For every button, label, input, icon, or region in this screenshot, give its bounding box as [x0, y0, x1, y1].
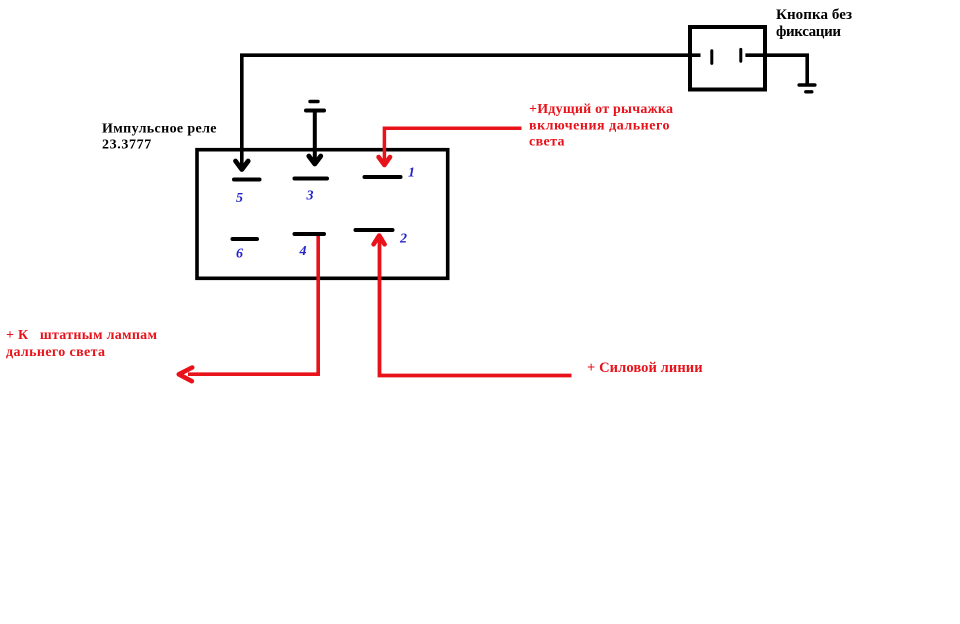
svg-text:Кнопка без: Кнопка без — [776, 7, 852, 23]
svg-text:+ К штатным лампам: + К штатным лампам — [6, 328, 157, 343]
pin 1 terminal — [365, 175, 401, 179]
wire: button right side to ground — [745, 55, 807, 83]
pin 5 terminal — [234, 178, 260, 182]
battery minus symbol: wide bar — [306, 109, 324, 113]
button contact right — [739, 49, 742, 61]
svg-text:2: 2 — [399, 232, 407, 247]
ground bar short — [806, 90, 812, 93]
pin 4 terminal — [295, 232, 325, 236]
arrowhead red pointing left — [179, 368, 192, 382]
label red "+ К штатным лампам дальнего света" — [6, 328, 157, 360]
pin 6 terminal — [233, 237, 258, 241]
svg-text:Импульсное реле: Импульсное реле — [102, 122, 217, 137]
svg-text:включения дальнего: включения дальнего — [529, 118, 670, 133]
ground bar wide — [799, 83, 815, 87]
arrowhead red into pin 1 — [379, 157, 390, 165]
label relay "Импульсное реле 23.3777" — [102, 122, 217, 153]
svg-text:23.3777: 23.3777 — [102, 137, 151, 152]
label red "+Идущий от рычажка включения дальнего света" — [529, 102, 673, 149]
pin 2 terminal — [356, 228, 393, 232]
relay U1 box (Импульсное реле 23.3777) — [197, 150, 448, 279]
svg-text:света: света — [529, 134, 565, 149]
wire: red from lever text to pin 1 — [384, 128, 521, 162]
wire: button to pin 5 (top horizontal + left vertical) — [242, 55, 701, 167]
pin 3 terminal — [295, 177, 328, 181]
arrowhead red pointing up into pin 2 — [374, 236, 385, 245]
wire: bar down to pin 3 — [313, 112, 317, 161]
svg-text:5: 5 — [236, 191, 243, 206]
label button "Кнопка без фиксации" — [776, 7, 852, 40]
button S1 box (Кнопка без фиксации) — [690, 27, 765, 90]
svg-text:дальнего света: дальнего света — [6, 345, 105, 360]
svg-text:3: 3 — [306, 189, 314, 204]
arrowhead into pin 5 — [236, 161, 249, 170]
svg-text:1: 1 — [408, 166, 415, 181]
svg-text:фиксации: фиксации — [776, 24, 841, 40]
wire: red from power line text to pin 2 — [380, 240, 572, 376]
button contact left — [710, 51, 713, 64]
wire: red from pin 4 down and left — [188, 236, 318, 374]
svg-text:6: 6 — [236, 247, 243, 262]
battery minus symbol above pin 3: short dash — [310, 100, 318, 103]
svg-text:+ Силовой линии: + Силовой линии — [587, 360, 703, 376]
arrowhead into pin 3 — [309, 156, 321, 164]
svg-text:4: 4 — [299, 244, 307, 259]
svg-text:+Идущий от рычажка: +Идущий от рычажка — [529, 102, 673, 117]
